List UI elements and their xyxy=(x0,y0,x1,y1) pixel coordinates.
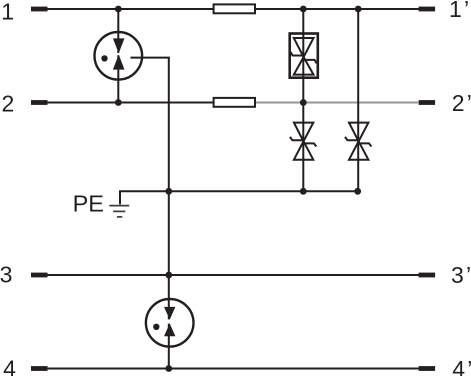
svg-text:4: 4 xyxy=(3,356,16,376)
ground symbol (earth) xyxy=(109,206,129,217)
svg-text:3: 3 xyxy=(0,262,12,288)
TVS diode V2 (right, line 2 to PE rail) xyxy=(345,123,371,160)
terminal pad 2' xyxy=(419,100,436,105)
svg-text:4’: 4’ xyxy=(452,356,471,376)
svg-text:1: 1 xyxy=(1,0,14,25)
svg-text:2: 2 xyxy=(2,90,15,116)
junction dot PE rail/right TVS xyxy=(354,188,361,195)
wire PE rail with PE stub xyxy=(120,191,358,204)
svg-text:3’: 3’ xyxy=(451,262,471,288)
terminal pad 3 xyxy=(31,273,48,278)
wire GDT F1 center tap horizontal xyxy=(131,57,170,59)
junction dot PE rail/left TVS xyxy=(300,188,307,195)
wire center tap vertical down to PE rail and line 3 xyxy=(168,58,170,320)
junction dot line3/center tap xyxy=(165,272,172,279)
svg-text:2’: 2’ xyxy=(452,90,471,116)
TVS diode V1 (left, line 2 to PE rail) xyxy=(290,123,316,160)
svg-text:PE: PE xyxy=(73,191,104,217)
wire line1 to GDT F1 top xyxy=(117,9,119,53)
junction dot line2/left TVS branch xyxy=(300,99,307,106)
terminal pad 4 xyxy=(31,366,48,371)
resistor R1 (line 1) xyxy=(214,4,255,13)
gas discharge tube F1 (between line 1 and line 2) xyxy=(95,32,143,80)
terminal pad 1 xyxy=(31,7,48,12)
terminal pad 3' xyxy=(419,273,436,278)
boxed suppressor (bidirectional TVS in box, line 1 to line 2) xyxy=(290,34,318,78)
terminal pad 4' xyxy=(419,366,436,371)
terminal pad 1' xyxy=(419,7,436,12)
junction dot line2/GDT F1 xyxy=(115,99,122,106)
wire line 1 (1 to 1') xyxy=(47,8,419,10)
wire GDT F2 bottom to line 4 xyxy=(168,324,170,369)
junction dot PE rail/center tap xyxy=(165,188,172,195)
wire line 2 left (2 to resistor) xyxy=(47,102,213,104)
junction dot line1/boxed arrester xyxy=(300,6,307,13)
svg-text:1’: 1’ xyxy=(449,0,469,22)
wire line 3 (3 to 3') xyxy=(47,274,419,276)
gas discharge tube F2 (between line 3 and line 4) xyxy=(146,299,194,347)
wire GDT F1 bottom to line2 xyxy=(117,55,119,102)
terminal pad 2 xyxy=(31,100,48,105)
wire line 4 (4 to 4') xyxy=(47,368,419,370)
wire line 2 right (resistor to 2', thin) xyxy=(256,102,419,104)
resistor R2 (line 2) xyxy=(214,98,255,107)
junction dot line4/GDT F2 xyxy=(165,365,172,372)
wire line1 to PE rail through right TVS xyxy=(357,9,359,191)
junction dot line1/right TVS branch xyxy=(355,6,362,13)
wire line1 to PE rail through boxed arrester and TVS xyxy=(302,9,304,191)
junction dot line1/GDT F1 xyxy=(115,6,122,13)
